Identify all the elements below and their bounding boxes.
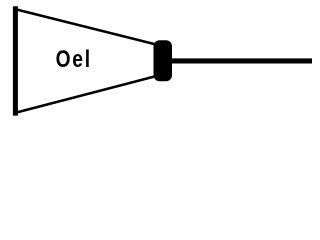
wire to right edge [171, 58, 312, 63]
left vertical bar of funnel [13, 6, 18, 115]
top slanted edge [15, 9, 156, 44]
bottom slanted edge [15, 76, 156, 113]
oil pressure sender symbol (funnel body) [15, 6, 156, 115]
svg-text:Oel: Oel [56, 45, 92, 73]
connector block [154, 40, 173, 81]
